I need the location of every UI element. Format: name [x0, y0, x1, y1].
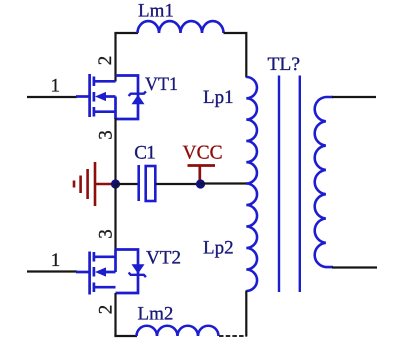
source/body junction vertical	[114, 97, 117, 120]
transistor VT2 (mirrored copy of VT1)	[76, 250, 146, 295]
svg-text:TL?: TL?	[268, 54, 301, 75]
svg-text:C1: C1	[134, 143, 156, 164]
node junction dot at VCC	[196, 179, 205, 188]
body arrow head	[95, 92, 106, 101]
drain contact lead	[94, 286, 116, 289]
VCC rail bar	[188, 164, 216, 167]
winding Lp1	[246, 77, 257, 184]
source contact lead	[94, 255, 116, 258]
body arrow head	[95, 267, 106, 276]
svg-text:2: 2	[95, 56, 116, 66]
wire Lm1 right to top-right corner	[224, 33, 247, 78]
channel segment	[93, 267, 96, 277]
body diode VT2 triangle	[132, 264, 145, 273]
winding secondary	[315, 97, 333, 267]
wire top-left horizontal to Lm1	[114, 32, 138, 34]
ground stub wire	[95, 183, 113, 186]
power VCC symbol	[188, 166, 216, 183]
winding Lp2	[246, 184, 257, 292]
wire VT2 drain vertical (pin 2)	[114, 293, 116, 336]
svg-text:1: 1	[51, 76, 61, 97]
node junction dot at ground/source	[111, 179, 120, 188]
svg-text:VT2: VT2	[146, 248, 181, 269]
drain contact lead	[94, 80, 116, 83]
wire VT1 drain vertical (pin 2)	[114, 33, 116, 82]
ground symbol	[74, 162, 113, 206]
svg-text:VT1: VT1	[145, 74, 178, 95]
wire VT1 gate lead (black part)	[27, 96, 77, 98]
wire secondary bottom	[332, 266, 377, 268]
wire C1 to VCC node	[156, 183, 198, 185]
capacitor C1	[139, 165, 156, 201]
channel segment body	[93, 92, 96, 102]
svg-text:1: 1	[51, 250, 61, 271]
wire junction to C1	[116, 183, 139, 185]
body diode VT1 cathode bar (zener style)	[129, 91, 146, 96]
wire VT2 gate lead (black part)	[27, 270, 77, 272]
inductor Lm1	[138, 21, 224, 33]
C1 left plate	[137, 165, 140, 201]
transistor VT1	[76, 74, 146, 119]
source contact lead	[94, 110, 116, 113]
gate lead blue stub	[76, 271, 89, 274]
svg-text:3: 3	[95, 229, 116, 239]
body arrow lead	[104, 95, 116, 98]
source/body junction vertical	[114, 250, 117, 273]
svg-text:2: 2	[95, 305, 116, 315]
body arrow lead	[104, 271, 116, 274]
C1 right plate rectangle	[146, 166, 156, 201]
wire bottom-right vertical to Lp2	[245, 291, 247, 337]
inductor Lm2	[137, 326, 219, 336]
transformer core line right	[299, 76, 301, 293]
wire secondary top	[332, 96, 376, 98]
wire bottom-left horizontal to Lm2	[114, 335, 137, 337]
gate bar	[88, 252, 91, 295]
gate bar	[88, 74, 91, 117]
svg-text:Lm1: Lm1	[138, 1, 174, 22]
gate lead blue stub	[76, 95, 89, 98]
svg-text:Lm2: Lm2	[138, 304, 174, 325]
wire Lm2 right to bottom-right corner	[219, 335, 246, 337]
transformer core line left	[278, 76, 280, 293]
channel segment drain	[93, 77, 96, 87]
wire VCC node to transformer center tap	[201, 182, 248, 184]
wire VT2 source vertical (pin 3)	[114, 184, 116, 250]
body diode VT1 triangle	[132, 95, 145, 104]
svg-text:3: 3	[95, 130, 116, 140]
outer drain-source loop with body diode branch	[116, 76, 139, 120]
wire VT1 source vertical (pin 3)	[114, 118, 116, 185]
channel segment	[93, 283, 96, 293]
svg-text:Lp1: Lp1	[203, 87, 234, 108]
svg-text:VCC: VCC	[183, 143, 223, 164]
body diode VT2 cathode bar (zener style)	[129, 273, 146, 278]
outer drain-source loop	[116, 250, 139, 294]
channel segment	[93, 252, 96, 262]
VCC pole	[198, 166, 201, 183]
channel segment source	[93, 107, 96, 117]
svg-text:Lp2: Lp2	[203, 238, 234, 259]
